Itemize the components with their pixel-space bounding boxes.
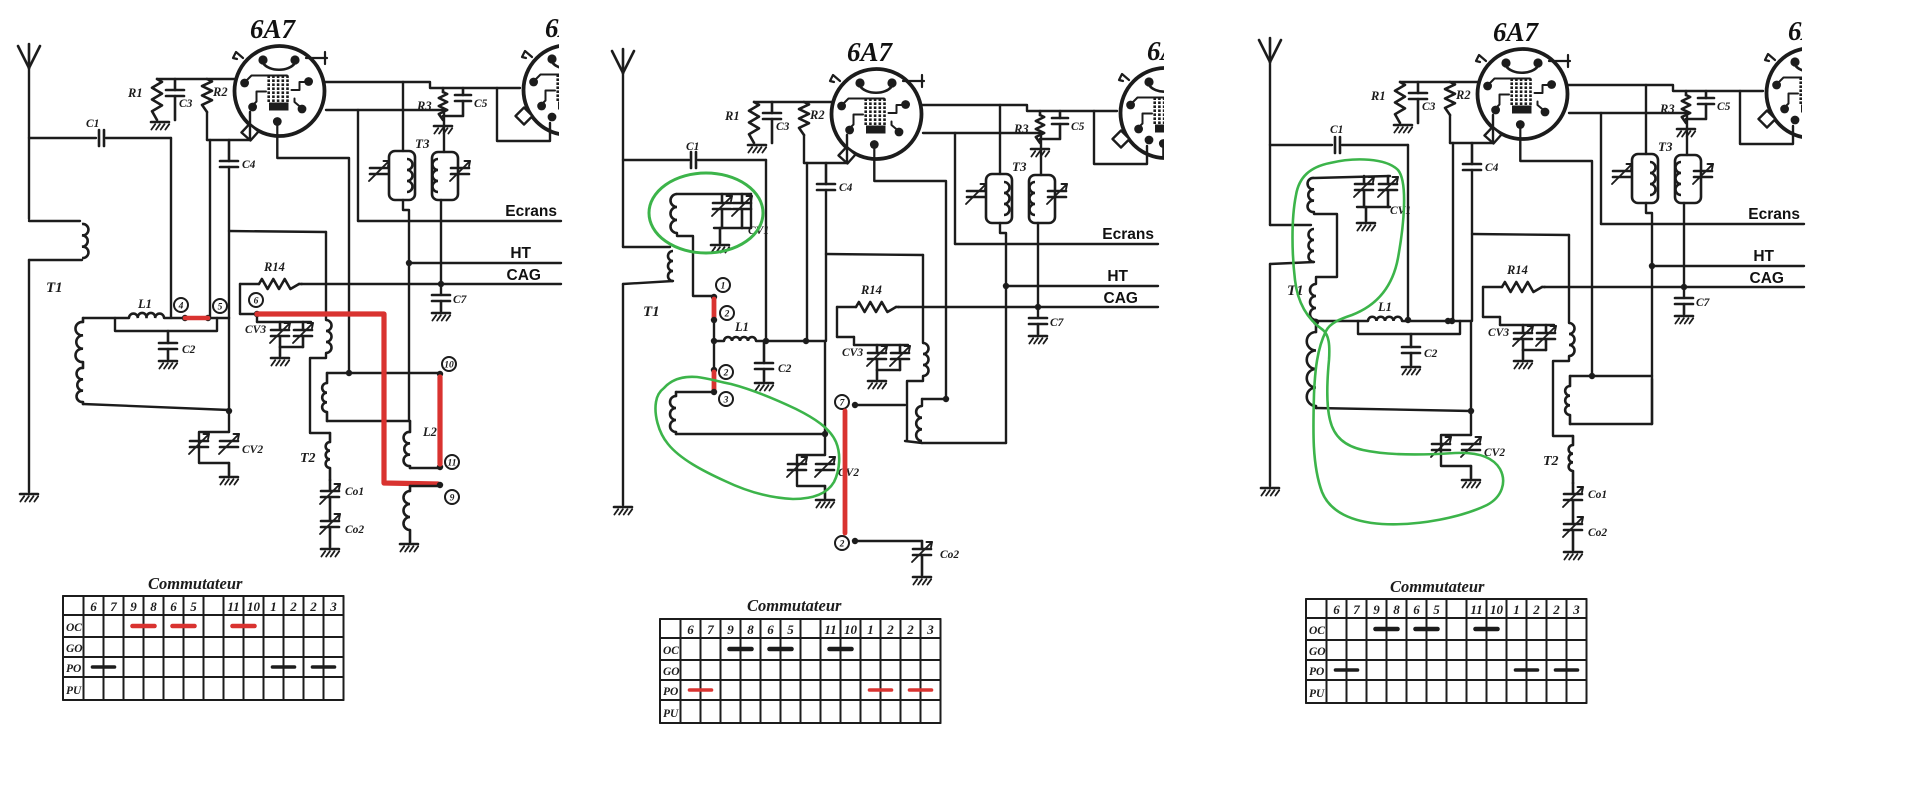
panel1 capacitor C7 (432, 294, 468, 311)
panel1 C2 branch wire (115, 318, 217, 331)
svg-text:6A7: 6A7 (1147, 36, 1194, 66)
svg-text:L1: L1 (734, 320, 749, 334)
panel3 CAG bus line (1544, 270, 1804, 290)
panel3 capacitor C2 (1402, 334, 1438, 365)
svg-text:L2: L2 (422, 425, 437, 439)
panel3 C2 branch wire (1358, 321, 1460, 334)
panel2 label T3 (1012, 159, 1027, 174)
panel3 ground below CV2 (1462, 480, 1480, 488)
svg-text:2: 2 (289, 599, 297, 614)
panel3 resistor R2 (1445, 82, 1471, 115)
panel1 resistor R1 (127, 79, 162, 120)
panel1 ground below cathode coil (400, 544, 418, 552)
panel2 osc coil upper link (922, 396, 949, 406)
svg-text:PU: PU (66, 685, 82, 697)
panel1 trimmer CV3b (293, 322, 313, 347)
svg-text:R14: R14 (263, 260, 285, 274)
panel1 wire C1 down to L1 (170, 138, 172, 318)
svg-text:Ecrans: Ecrans (1748, 206, 1800, 223)
panel3 capacitor C4 (1463, 143, 1499, 174)
svg-text:HT: HT (1753, 248, 1774, 265)
svg-text:C7: C7 (1696, 297, 1711, 309)
panel3 wire secondary bottom (1316, 406, 1471, 411)
panel2 CV3 bottom bar and ground (842, 347, 900, 389)
panel1 capacitor C4 (220, 140, 256, 171)
svg-text:9: 9 (130, 599, 137, 614)
panel2 oscillator grid coil (907, 343, 929, 441)
svg-text:9: 9 (1373, 602, 1380, 617)
svg-text:C5: C5 (1717, 101, 1731, 113)
svg-text:CAG: CAG (1750, 270, 1784, 287)
panel2 wire node2 to L1 (711, 320, 717, 344)
svg-text:PO: PO (1309, 666, 1324, 678)
panel3 table header pin numbers (1333, 602, 1580, 617)
panel3 IF transformer T3 secondary (1675, 155, 1701, 203)
svg-text:CV1: CV1 (1390, 205, 1411, 217)
panel3 T3 primary trimmer cap (1612, 164, 1632, 184)
svg-text:Co2: Co2 (345, 524, 364, 536)
panel3 label Commutateur (1390, 577, 1485, 596)
panel3 Ecrans bus line (1601, 206, 1804, 224)
panel1 antenna mast to ground (28, 260, 30, 492)
panel1 node 11 (437, 455, 459, 470)
svg-text:6: 6 (170, 599, 177, 614)
svg-text:C3: C3 (1422, 101, 1436, 113)
svg-text:10: 10 (247, 599, 261, 614)
panel3 capacitor C5 (1686, 91, 1731, 119)
svg-text:HT: HT (510, 245, 531, 262)
panel2 aerial transformer T1 primary (623, 247, 673, 320)
panel2 green loop around GO coil and CV2 (656, 377, 840, 499)
panel1 tuning cap CV2 loop (199, 408, 232, 475)
panel1 table header pin numbers (90, 599, 337, 614)
svg-text:CV2: CV2 (242, 444, 263, 456)
panel2 junction dot on L1 wire (803, 338, 809, 344)
panel1 ground below Co2 (321, 549, 339, 557)
panel2 red strap node1-node2 (712, 299, 717, 318)
panel3 osc top rail (1570, 373, 1652, 379)
svg-text:T2: T2 (300, 451, 316, 466)
panel1 CAG bus line (301, 267, 561, 287)
svg-text:11: 11 (448, 458, 457, 468)
svg-text:T3: T3 (1012, 159, 1027, 174)
panel2 wire to 2nd tube pin (1094, 111, 1147, 164)
svg-text:9: 9 (450, 493, 455, 503)
panel3 osc bottom rail (1570, 423, 1652, 425)
panel3 padder Co2 (1563, 517, 1607, 550)
panel3 wire screen lead (1569, 112, 1687, 114)
panel2 node 3 (711, 389, 733, 406)
panel2 node 2 (711, 306, 734, 323)
panel3 antenna mast to ground (1269, 264, 1271, 486)
panel2 ground below CV1 (711, 228, 729, 253)
panel2 T3 secondary trimmer cap (1047, 184, 1067, 204)
panel2 antenna mast to ground (622, 284, 624, 505)
svg-text:C2: C2 (182, 344, 196, 356)
panel3 osc rails closing side (1651, 379, 1653, 424)
svg-text:7: 7 (1353, 602, 1360, 617)
svg-text:C4: C4 (839, 182, 853, 194)
svg-text:Commutateur: Commutateur (747, 596, 842, 615)
svg-text:C4: C4 (242, 159, 256, 171)
svg-text:GO: GO (663, 666, 680, 678)
panel3 T3 secondary trimmer cap (1693, 164, 1713, 184)
svg-text:10: 10 (444, 360, 454, 370)
panel1 commutateur table grid (63, 596, 344, 700)
panel1 capacitor C1 (29, 118, 171, 146)
svg-text:6: 6 (687, 622, 694, 637)
panel1 IF transformer T3 primary (389, 151, 415, 200)
panel2 wire anode lead (922, 105, 1117, 111)
panel2 ground below C2 (755, 383, 773, 391)
panel2 resistor R14 (837, 283, 899, 312)
svg-text:2: 2 (906, 622, 914, 637)
panel3 shortwave coil with CV1 (1308, 176, 1390, 212)
panel1 capacitor C3 (166, 79, 193, 120)
panel2 node 7 (835, 395, 858, 409)
svg-text:2: 2 (886, 622, 894, 637)
panel2 green circle around CV1 section (649, 173, 763, 253)
panel2 wire grid-leak top (754, 101, 831, 103)
svg-text:R2: R2 (809, 108, 825, 122)
svg-text:C5: C5 (474, 98, 488, 110)
panel2 Ecrans bus line (955, 226, 1158, 244)
svg-text:R1: R1 (724, 109, 740, 123)
panel1 IF transformer T3 secondary (432, 152, 458, 200)
panel2 node 2 bottom (835, 536, 858, 550)
panel3 label 6A7 on 2nd tube (clipped) (1788, 16, 1835, 46)
panel2 wire osc grid path (826, 254, 923, 343)
panel3 ground below R3 (1677, 129, 1695, 137)
panel3 wire anode lead (1568, 85, 1763, 91)
svg-text:C3: C3 (179, 98, 193, 110)
svg-text:7: 7 (707, 622, 714, 637)
svg-text:6A7: 6A7 (1493, 17, 1540, 47)
panel2 trimmer CV2b (815, 457, 859, 479)
panel1 HT bus line (406, 245, 561, 266)
panel3 ground below C7 (1675, 316, 1693, 324)
panel2 resistor R2 (799, 102, 825, 135)
panel1 oscillator grid coil (310, 320, 332, 433)
panel3 capacitor C7 (1675, 297, 1711, 314)
panel1 padding coil T2 (300, 433, 330, 480)
svg-text:T2: T2 (1543, 454, 1559, 469)
panel1 next stage tube (partial) (516, 45, 617, 135)
panel1 wire tube cathode to osc rail (277, 136, 349, 373)
panel1 red strap node10-node11 (437, 377, 442, 464)
panel2 capacitor C3 (763, 102, 790, 143)
svg-text:2: 2 (1532, 602, 1540, 617)
svg-text:OC: OC (66, 622, 82, 634)
svg-text:CV2: CV2 (838, 467, 859, 479)
panel3 label 6A7 (1493, 17, 1540, 47)
svg-text:Ecrans: Ecrans (505, 203, 557, 220)
svg-text:C5: C5 (1071, 121, 1085, 133)
panel2 wire screen to Ecrans (954, 133, 956, 244)
svg-text:C2: C2 (1424, 348, 1438, 360)
panel1 wire to 2nd tube pin (497, 88, 550, 141)
svg-text:3: 3 (926, 622, 934, 637)
panel2 wire node3 to GO coil (676, 392, 714, 396)
panel3 oscillator tank coil (1565, 376, 1570, 424)
panel1 oscillator tank coil (322, 373, 327, 421)
svg-text:5: 5 (1433, 602, 1440, 617)
panel1 padder Co1 (320, 480, 364, 521)
panel2 wire coil to node1 (677, 233, 712, 296)
panel1 padder Co2 (320, 514, 364, 547)
panel3 wire R2 to cathode pin (1450, 115, 1493, 143)
panel2 node 2 lower (711, 365, 733, 379)
panel3 trimmer CV1b (1378, 176, 1411, 217)
panel3 aerial transformer T1 primary (1270, 225, 1314, 299)
panel3 wire to 2nd tube pin (1740, 91, 1793, 144)
panel1 wire grid-leak top (157, 78, 234, 80)
panel1 trimmer CV3a (270, 322, 290, 347)
panel3 commutateur table grid (1306, 599, 1587, 703)
panel1 label T3 (415, 136, 430, 151)
panel3 resistor R3 (1659, 91, 1690, 123)
panel2 trimmer CV3b (890, 345, 910, 370)
panel2 wire grid riser (806, 163, 808, 341)
panel3 T1 secondary upper coil (1310, 284, 1316, 320)
panel1 CV3 bottom bar and ground (245, 324, 303, 366)
panel3 pentagrid tube U1 6A7 (1476, 49, 1570, 144)
panel2 wire T3 primary to HT and L2 rail (1000, 223, 1006, 286)
panel3 ground below R1 (1394, 125, 1412, 133)
panel2 wire C4 down (825, 190, 827, 341)
panel1 Ecrans bus line (358, 203, 561, 221)
svg-text:C1: C1 (1330, 124, 1343, 136)
panel1 coil L2 (404, 421, 438, 468)
svg-text:HT: HT (1107, 268, 1128, 285)
panel2 table row labels OC GO PO PU (663, 645, 680, 720)
panel1 trimmer CV2b (219, 434, 263, 456)
svg-text:R2: R2 (1455, 88, 1471, 102)
panel2 wire anode to T3 primary (999, 105, 1001, 174)
svg-text:6A7: 6A7 (250, 14, 297, 44)
svg-text:5: 5 (190, 599, 197, 614)
svg-text:PU: PU (663, 708, 679, 720)
svg-text:T1: T1 (46, 280, 63, 296)
panel3 CV3 bottom bar and ground (1488, 327, 1546, 369)
panel2 node 1 (711, 278, 730, 300)
panel2 trimmer CV3a (867, 345, 887, 370)
svg-text:R3: R3 (416, 99, 432, 113)
svg-text:11: 11 (1470, 602, 1482, 617)
panel3 wire screen to T3 secondary (1686, 113, 1688, 155)
svg-text:CAG: CAG (1104, 290, 1138, 307)
panel1 oscillator cathode coil (404, 486, 438, 542)
panel2 ground below antenna (614, 507, 632, 515)
panel2 ground below R1 (748, 145, 766, 153)
panel1 label 6A7 (250, 14, 297, 44)
svg-text:8: 8 (747, 622, 754, 637)
panel3 wire grid riser (1452, 143, 1454, 321)
panel1 ground below antenna (20, 494, 38, 502)
panel2 trimmer CV1a (712, 194, 732, 228)
panel1 resistor R3 (416, 88, 447, 120)
panel2 HT bus line (1003, 268, 1158, 289)
panel3 trimmer CV2a (1431, 437, 1451, 457)
panel1 wire grid riser (209, 140, 211, 318)
svg-text:T1: T1 (643, 304, 660, 320)
panel1 capacitor C2 (159, 331, 196, 359)
panel3 trimmer CV3a (1513, 325, 1533, 350)
panel3 wire CV1 coil to secondary (1314, 212, 1337, 284)
panel3 capacitor C1 (1270, 124, 1408, 153)
svg-text:1: 1 (1513, 602, 1520, 617)
panel3 table OC-row link mark at col 8 (1476, 627, 1498, 632)
svg-text:2: 2 (723, 368, 729, 378)
panel1 ground below C2 (159, 361, 177, 369)
panel3 green loop around T1 and CV2 (1293, 159, 1504, 524)
panel2 trimmer CV2a (787, 457, 807, 477)
svg-text:Co1: Co1 (1588, 489, 1607, 501)
panel1 coil L1 (129, 297, 164, 318)
svg-text:6: 6 (90, 599, 97, 614)
panel1 node 5 (205, 299, 227, 321)
panel1 node 6 (249, 293, 263, 317)
panel2 capacitor C4 (817, 163, 853, 194)
panel3 wire L1 output (1402, 318, 1471, 411)
panel2 wire C1 down to L1 (765, 160, 767, 341)
panel1 node 10 (437, 357, 456, 377)
svg-text:R1: R1 (127, 86, 143, 100)
svg-text:OC: OC (663, 645, 679, 657)
panel2 ground below R3 (1031, 149, 1049, 157)
svg-text:4: 4 (178, 301, 184, 311)
panel3 coil L1 (1313, 300, 1402, 325)
svg-text:Ecrans: Ecrans (1102, 226, 1154, 243)
panel2 wire screen lead (923, 132, 1041, 134)
svg-text:L1: L1 (1377, 300, 1392, 314)
svg-text:C7: C7 (1050, 317, 1065, 329)
panel2 capacitor C7 (1029, 317, 1065, 334)
panel3 wire R14 to CV3 bus (1483, 287, 1500, 317)
panel1 resistor R14 (240, 260, 302, 289)
panel3 ground below C2 (1402, 367, 1420, 375)
panel1 table PO-row link mark at col 10 (273, 665, 295, 669)
panel3 tuning cap CV2 loop (1441, 408, 1474, 478)
svg-text:10: 10 (844, 622, 858, 637)
svg-text:OC: OC (1309, 625, 1325, 637)
panel3 padder Co1 (1563, 483, 1607, 524)
panel2 osc second coil (916, 406, 922, 441)
panel2 wire L1 to node2b (713, 341, 715, 369)
svg-text:6: 6 (254, 296, 259, 306)
panel1 wire osc grid path (229, 231, 326, 320)
svg-text:8: 8 (1393, 602, 1400, 617)
panel2 red strap node2-node3 (712, 372, 717, 390)
panel3 wire C1 down to L1 (1405, 145, 1411, 323)
panel1 wire T1 bottom return (83, 404, 229, 410)
panel2 wire L1 output (756, 338, 825, 433)
panel1 wire C4 down (228, 167, 230, 318)
svg-text:T3: T3 (415, 136, 430, 151)
panel2 CAG bus line (898, 290, 1158, 310)
panel3 ground below antenna (1261, 488, 1279, 496)
panel2 capacitor C2 (755, 341, 792, 381)
panel2 wire screen to T3 secondary (1040, 133, 1042, 175)
svg-text:R14: R14 (1506, 263, 1528, 277)
panel1 table PO-row link mark at col 12 (313, 665, 335, 669)
svg-text:1: 1 (721, 281, 726, 291)
panel3 wire tube cathode to osc rail (1520, 139, 1592, 376)
panel2 label 6A7 (847, 37, 894, 67)
panel1 osc bottom rail (327, 420, 410, 422)
panel1 aerial coupling transformer T1 primary (29, 221, 88, 296)
panel1 label Commutateur (148, 574, 243, 593)
svg-text:5: 5 (787, 622, 794, 637)
panel1 wire screen to T3 secondary (443, 110, 445, 152)
panel2 ground below Co2 (913, 577, 931, 585)
panel3 table PO-row link mark at col 12 (1556, 668, 1578, 672)
panel3 antenna (1259, 38, 1281, 225)
panel2 osc coil lower link (905, 287, 1006, 443)
svg-text:7: 7 (840, 398, 846, 408)
panel3 HT bus line (1649, 248, 1804, 269)
panel1 T1 secondary coil (75, 318, 83, 404)
svg-text:3: 3 (329, 599, 337, 614)
panel1 pentagrid tube U1 6A7 (233, 46, 327, 141)
panel3 resistor R1 (1370, 82, 1405, 123)
svg-text:5: 5 (218, 302, 223, 312)
svg-text:PO: PO (663, 686, 678, 698)
panel3 wire grid-leak top (1400, 81, 1477, 83)
panel3 T1 secondary lower coil (1307, 320, 1316, 406)
panel2 table header pin numbers (687, 622, 934, 637)
svg-text:CAG: CAG (507, 267, 541, 284)
panel2 ground below CV2 (816, 500, 834, 508)
svg-text:Commutateur: Commutateur (1390, 577, 1485, 596)
panel3 padding coil T2 (1543, 436, 1573, 483)
panel3 wire T3 primary to HT and L2 rail (1646, 203, 1652, 424)
panel2 ground below C7 (1029, 336, 1047, 344)
panel2 T3 primary trimmer cap (966, 184, 986, 204)
svg-text:6A7: 6A7 (847, 37, 894, 67)
panel2 coil L1 (714, 320, 756, 341)
panel1 padder CV3 top bar (257, 314, 311, 322)
panel1 red strap node6 to node9 (257, 314, 438, 484)
panel3 wire osc grid path (1472, 234, 1569, 323)
panel3 wire T3 secondary down to C7 (1683, 203, 1685, 298)
svg-text:11: 11 (824, 622, 836, 637)
panel1 ground below C7 (432, 313, 450, 321)
panel2 red strap node7-node2 (843, 411, 848, 533)
panel2 shortwave coil with CV1 (670, 194, 751, 233)
svg-text:CV3: CV3 (245, 324, 266, 336)
panel1 ground below R3 (434, 126, 452, 134)
svg-text:1: 1 (867, 622, 874, 637)
panel1 node 9 (437, 482, 459, 504)
svg-text:3: 3 (1572, 602, 1580, 617)
svg-text:Co2: Co2 (940, 549, 959, 561)
panel3 IF transformer T3 primary (1632, 154, 1658, 203)
svg-text:C1: C1 (86, 118, 99, 130)
panel3 ground below CV1 (1357, 207, 1375, 231)
panel1 wire T1 secondary to L1 (83, 317, 129, 319)
svg-text:GO: GO (66, 643, 83, 655)
svg-text:3: 3 (723, 395, 729, 405)
panel2 wire R2 to cathode pin (804, 135, 847, 163)
panel3 table OC-row link mark at col 5 (1416, 627, 1438, 632)
panel3 table row labels OC GO PO PU (1309, 625, 1326, 700)
panel1 capacitor C5 (443, 88, 488, 116)
panel3 table OC-row link mark at col 3 (1376, 627, 1398, 632)
panel2 capacitor C1 (623, 141, 766, 168)
panel2 wire tube cathode to osc rail (874, 159, 946, 399)
svg-text:R1: R1 (1370, 89, 1386, 103)
